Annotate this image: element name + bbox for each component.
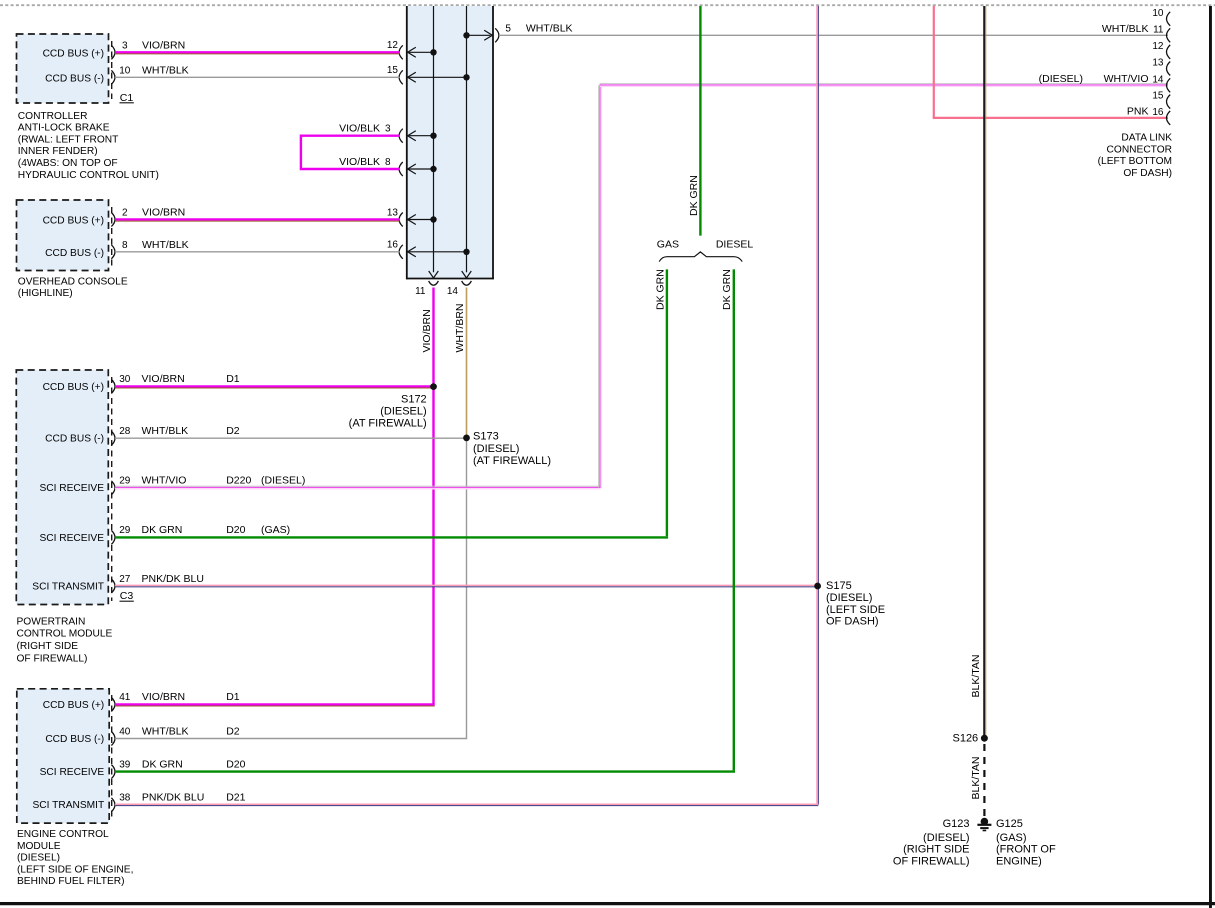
svg-text:(DIESEL): (DIESEL) — [261, 475, 305, 487]
wire VIO/BRN controller ALB pin 3 to block pin 12 — [115, 52, 400, 54]
svg-text:40: 40 — [119, 726, 131, 737]
pin 27 number — [119, 574, 131, 585]
svg-text:(LEFT SIDE: (LEFT SIDE — [826, 604, 885, 616]
svg-text:DIESEL: DIESEL — [716, 238, 754, 250]
bus wire 1 (CCD+) inside block — [429, 6, 439, 278]
svg-text:(AT FIREWALL): (AT FIREWALL) — [473, 455, 551, 467]
data link connector pin 13 bracket — [1167, 62, 1171, 76]
PNK/DK BLU wire label (pin 38) — [142, 792, 204, 804]
PCM CCD BUS (-) label — [45, 434, 104, 445]
svg-text:C3: C3 — [120, 590, 134, 602]
block pin 13 internal wire with arrow and junction — [408, 215, 437, 225]
svg-text:SCI RECEIVE: SCI RECEIVE — [40, 767, 105, 778]
svg-text:S173: S173 — [473, 431, 499, 443]
PCM pin bracket at SCI TRANSMIT — [111, 579, 115, 593]
pin 41 number — [119, 692, 131, 703]
GAS label — [657, 238, 679, 250]
block pin 5 internal wire with arrow and junction — [463, 30, 492, 40]
PCM SCI TRANSMIT label — [32, 581, 104, 592]
PCM CCD BUS (+) label — [43, 382, 104, 393]
controller ALB pin 3 bracket — [111, 45, 115, 59]
wire VIO/BLK jumper loop between block pins 3 and 8 — [301, 136, 400, 169]
block pin 8 number label — [385, 157, 391, 168]
pin 3 number — [122, 40, 128, 51]
svg-text:INNER FENDER): INNER FENDER) — [18, 146, 98, 157]
wire VIO/BRN vertical from block pin 11 — [432, 288, 434, 705]
WHT/BLK wire label (pin 40) — [142, 725, 189, 737]
PCM pin bracket at CCD BUS (+) — [111, 379, 115, 393]
CCD BUS (+) label (controller ALB) — [43, 48, 104, 59]
svg-text:27: 27 — [119, 574, 131, 585]
WHT/BLK wire label (pin 8) — [142, 239, 189, 251]
ECM CCD BUS (+) label — [43, 700, 104, 711]
wire WHT/BLK controller ALB pin 10 to block pin 15 — [115, 76, 400, 78]
data link connector pin 11 bracket — [1167, 28, 1171, 42]
svg-text:(DIESEL): (DIESEL) — [473, 443, 519, 455]
block pin 3 internal wire with arrow and junction — [408, 131, 437, 141]
svg-text:(DIESEL): (DIESEL) — [923, 832, 969, 844]
svg-text:CCD BUS (+): CCD BUS (+) — [43, 48, 104, 59]
svg-text:VIO/BRN: VIO/BRN — [142, 207, 185, 219]
svg-text:OVERHEAD CONSOLE: OVERHEAD CONSOLE — [18, 276, 128, 287]
data link connector pin 13 number — [1152, 58, 1164, 69]
svg-text:(DIESEL): (DIESEL) — [380, 405, 426, 417]
ground G123 label — [943, 818, 970, 830]
svg-text:ENGINE): ENGINE) — [996, 855, 1042, 867]
controller anti-lock brake module box C1 — [17, 34, 112, 103]
svg-text:OF DASH): OF DASH) — [1123, 168, 1172, 179]
CCD BUS (-) label (overhead console) — [45, 248, 104, 259]
data link connector pin 15 number — [1152, 91, 1164, 102]
block pin 16 internal wire with arrow and junction — [408, 247, 470, 257]
svg-text:VIO/BRN: VIO/BRN — [142, 691, 185, 703]
WHT/BLK wire label (pin 28) — [142, 425, 189, 437]
svg-text:(HIGHLINE): (HIGHLINE) — [18, 288, 73, 299]
wire PNK from top of page to data link connector pin 16 — [933, 6, 1168, 118]
(GAS) annotation (D20) — [261, 524, 290, 536]
block pin 8 internal wire with arrow and junction — [408, 164, 437, 174]
svg-text:VIO/BRN: VIO/BRN — [421, 309, 433, 352]
WHT/VIO wire label (DLC pin 14) — [1104, 73, 1149, 85]
svg-text:(AT FIREWALL): (AT FIREWALL) — [349, 417, 427, 429]
pin 30 number — [119, 374, 131, 385]
PCM caption — [17, 616, 113, 664]
DK GRN label (DIESEL branch) — [721, 269, 733, 310]
svg-text:10: 10 — [1152, 8, 1164, 19]
ECM SCI TRANSMIT label — [32, 800, 104, 811]
pin 8 number — [122, 240, 128, 251]
page bottom solid border — [0, 902, 1215, 905]
svg-text:12: 12 — [387, 40, 399, 51]
svg-text:DK GRN: DK GRN — [654, 269, 666, 310]
PCM pin bracket at CCD BUS (-) — [111, 431, 115, 445]
svg-text:WHT/BLK: WHT/BLK — [142, 725, 189, 737]
block pin 5 number label — [505, 24, 511, 35]
data link connector pin 12 bracket — [1167, 45, 1171, 59]
svg-text:WHT/BLK: WHT/BLK — [142, 425, 189, 437]
page right solid border — [1209, 6, 1212, 908]
block pin 3 connector bracket — [399, 129, 403, 143]
svg-text:D20: D20 — [226, 758, 245, 770]
svg-text:13: 13 — [387, 207, 399, 218]
svg-text:(DIESEL): (DIESEL) — [17, 853, 60, 864]
wire DK GRN PCM pin 29 to GAS branch — [115, 269, 668, 537]
svg-text:D1: D1 — [226, 373, 240, 385]
svg-text:ANTI-LOCK BRAKE: ANTI-LOCK BRAKE — [18, 123, 110, 134]
svg-text:DK GRN: DK GRN — [142, 524, 183, 536]
svg-text:WHT/BLK: WHT/BLK — [1102, 23, 1149, 35]
svg-text:16: 16 — [387, 240, 399, 251]
VIO/BRN wire label (pin 2) — [142, 207, 185, 219]
svg-text:15: 15 — [387, 65, 399, 76]
svg-text:(RIGHT SIDE: (RIGHT SIDE — [17, 641, 79, 652]
svg-text:S126: S126 — [952, 732, 978, 744]
overhead console pin 2 bracket — [111, 213, 115, 227]
block pin 15 internal wire with arrow and junction — [408, 72, 470, 82]
CCD BUS (+) label (overhead console) — [43, 216, 104, 227]
svg-text:OF DASH): OF DASH) — [826, 616, 879, 628]
svg-text:8: 8 — [122, 240, 128, 251]
svg-text:WHT/BLK: WHT/BLK — [526, 23, 573, 35]
svg-text:S172: S172 — [401, 394, 427, 406]
svg-text:39: 39 — [119, 759, 131, 770]
data link connector pin 12 number — [1152, 41, 1164, 52]
svg-text:3: 3 — [122, 40, 128, 51]
splice S175 — [814, 583, 821, 590]
WHT/BLK wire label (pin 10) — [142, 64, 189, 76]
svg-text:BEHIND FUEL FILTER): BEHIND FUEL FILTER) — [17, 876, 125, 887]
DK GRN wire label (pin 39) — [142, 758, 183, 770]
PCM SCI RECEIVE label — [39, 533, 104, 544]
powertrain control module box C3 — [16, 370, 111, 605]
block pin 15 number label — [387, 65, 399, 76]
svg-text:CONNECTOR: CONNECTOR — [1107, 144, 1172, 155]
svg-text:OF FIREWALL): OF FIREWALL) — [893, 855, 970, 867]
wire WHT/VIO PCM pin 29 to data link connector pin 14 — [115, 84, 1168, 489]
svg-text:VIO/BRN: VIO/BRN — [142, 373, 185, 385]
data link connector pin 10 number — [1152, 8, 1164, 19]
ECM pin bracket at SCI RECEIVE — [111, 765, 115, 779]
svg-text:(FRONT OF: (FRONT OF — [996, 844, 1056, 856]
overhead console module box — [17, 200, 112, 271]
svg-text:VIO/BLK: VIO/BLK — [339, 156, 380, 168]
block pin 3 number label — [385, 124, 391, 135]
wire BLK/TAN from top of page to splice S126 — [984, 6, 986, 738]
svg-text:(GAS): (GAS) — [261, 524, 290, 536]
connector block body (bulkhead connector) — [406, 6, 494, 279]
wire VIO/BRN overhead console pin 2 to block pin 13 — [115, 220, 400, 222]
connector C3 label — [120, 590, 134, 602]
svg-text:CCD BUS (+): CCD BUS (+) — [43, 216, 104, 227]
data link connector caption — [1098, 133, 1173, 179]
data link connector body bar — [1209, 6, 1212, 908]
pin 14 bottom exit of block — [447, 281, 472, 297]
svg-text:41: 41 — [119, 692, 131, 703]
pin 29 number (DK GRN) — [119, 525, 131, 536]
svg-text:28: 28 — [119, 426, 131, 437]
svg-text:CCD BUS (-): CCD BUS (-) — [45, 734, 104, 745]
controller ALB caption — [18, 111, 159, 181]
svg-text:SCI RECEIVE: SCI RECEIVE — [39, 533, 104, 544]
svg-text:DK GRN: DK GRN — [142, 758, 183, 770]
block pin 13 number label — [387, 207, 399, 218]
VIO/BRN wire label (pin 41) — [142, 691, 185, 703]
svg-text:ENGINE CONTROL: ENGINE CONTROL — [17, 829, 109, 840]
pin 29 number (WHT/VIO) — [119, 476, 131, 487]
svg-text:C1: C1 — [120, 92, 134, 104]
VIO/BRN wire label (pin 30) — [142, 373, 185, 385]
svg-text:G125: G125 — [996, 818, 1023, 830]
data link connector pin 16 bracket — [1167, 111, 1171, 125]
svg-text:11: 11 — [1153, 24, 1164, 35]
svg-text:GAS: GAS — [657, 238, 679, 250]
svg-text:CCD BUS (-): CCD BUS (-) — [45, 73, 104, 84]
block pin 13 connector bracket — [399, 213, 403, 227]
pin 10 number — [119, 65, 131, 76]
svg-text:POWERTRAIN: POWERTRAIN — [17, 616, 86, 627]
svg-text:13: 13 — [1152, 58, 1164, 69]
wire VIO/BRN PCM pin 30 to splice S172 — [115, 386, 432, 388]
ECM pin bracket at SCI TRANSMIT — [111, 798, 115, 812]
splice S175 caption — [826, 580, 885, 627]
wire DK GRN from top of page — [699, 6, 701, 236]
pin 28 number — [119, 426, 131, 437]
circuit D1 label (PCM) — [226, 373, 240, 385]
svg-text:D2: D2 — [226, 725, 240, 737]
connector C1 label — [120, 92, 134, 104]
svg-text:D2: D2 — [226, 425, 240, 437]
splice S172 caption — [349, 394, 427, 430]
overhead console pin 8 bracket — [111, 245, 115, 259]
block pin 5 connector bracket — [495, 28, 499, 42]
svg-text:SCI RECEIVE: SCI RECEIVE — [39, 483, 104, 494]
data link connector pin 11 number — [1153, 24, 1164, 35]
svg-text:MODULE: MODULE — [17, 841, 61, 852]
svg-text:CCD BUS (-): CCD BUS (-) — [45, 434, 104, 445]
VIO/BLK wire label (pin 8) — [339, 156, 380, 168]
svg-text:(RWAL: LEFT FRONT: (RWAL: LEFT FRONT — [18, 134, 119, 145]
svg-text:BLK/TAN: BLK/TAN — [970, 655, 982, 698]
PNK/DK BLU wire label (pin 27) — [142, 573, 204, 585]
WHT/BLK wire label (pin 5) — [526, 23, 573, 35]
svg-text:WHT/BLK: WHT/BLK — [142, 64, 189, 76]
PCM SCI RECEIVE label — [39, 483, 104, 494]
block pin 8 connector bracket — [399, 162, 403, 176]
svg-text:(LEFT BOTTOM: (LEFT BOTTOM — [1098, 156, 1172, 167]
pin 40 number — [119, 726, 131, 737]
svg-text:(GAS): (GAS) — [996, 832, 1027, 844]
svg-text:VIO/BLK: VIO/BLK — [339, 123, 380, 135]
VIO/BRN wire label (pin 3) — [142, 39, 185, 51]
splice S173 caption — [473, 431, 551, 468]
pin 38 number — [119, 793, 131, 804]
svg-text:DK GRN: DK GRN — [688, 175, 700, 216]
PNK wire label (DLC pin 16) — [1127, 105, 1149, 117]
pin 39 number — [119, 759, 131, 770]
block pin 12 number label — [387, 40, 399, 51]
svg-text:PNK/DK BLU: PNK/DK BLU — [142, 573, 204, 585]
svg-text:WHT/VIO: WHT/VIO — [1104, 73, 1149, 85]
splice S126 — [981, 735, 988, 742]
BLK/TAN vertical wire label (upper) — [970, 655, 982, 698]
svg-text:2: 2 — [122, 208, 128, 219]
ground G125 label — [996, 818, 1023, 830]
svg-text:15: 15 — [1152, 91, 1164, 102]
splice S173 — [463, 435, 470, 442]
svg-text:5: 5 — [505, 24, 511, 35]
svg-text:3: 3 — [385, 124, 391, 135]
wire PNK/DK BLU ECM pin 38 to splice S175 vertical — [115, 804, 818, 805]
data link connector pin 16 number — [1152, 107, 1164, 118]
svg-text:14: 14 — [1152, 74, 1164, 85]
CCD BUS (-) label (controller ALB) — [45, 73, 104, 84]
svg-text:PNK/DK BLU: PNK/DK BLU — [142, 792, 204, 804]
circuit D21 label (ECM) — [226, 792, 245, 804]
svg-text:PNK: PNK — [1127, 105, 1149, 117]
pin 11 bottom exit of block — [415, 281, 438, 297]
VIO/BLK wire label (pin 3) — [339, 123, 380, 135]
wire WHT/BLK ECM pin 40 to vertical — [115, 738, 467, 740]
DK GRN wire label (pin 29) — [142, 524, 183, 536]
ground symbol G123 / G125 — [977, 818, 991, 831]
engine control module box — [17, 689, 112, 823]
svg-text:16: 16 — [1152, 107, 1164, 118]
svg-text:8: 8 — [385, 157, 391, 168]
WHT/BLK wire label (DLC pin 11) — [1102, 23, 1149, 35]
ECM pin bracket at CCD BUS (-) — [111, 732, 115, 746]
splice S172 — [430, 383, 437, 390]
svg-text:SCI TRANSMIT: SCI TRANSMIT — [32, 800, 104, 811]
PCM pin bracket at SCI RECEIVE — [111, 530, 115, 544]
svg-text:S175: S175 — [826, 580, 852, 592]
wire VIO/BRN ECM pin 41 to vertical bus — [115, 704, 435, 706]
BLK/TAN vertical wire label (lower) — [970, 757, 982, 800]
svg-text:G123: G123 — [943, 818, 970, 830]
svg-text:SCI TRANSMIT: SCI TRANSMIT — [32, 581, 104, 592]
svg-text:CCD BUS (+): CCD BUS (+) — [43, 700, 104, 711]
svg-text:D21: D21 — [226, 792, 245, 804]
data link connector pin 14 bracket — [1167, 78, 1171, 92]
svg-text:CCD BUS (-): CCD BUS (-) — [45, 248, 104, 259]
svg-text:10: 10 — [119, 65, 131, 76]
svg-text:(DIESEL): (DIESEL) — [1039, 73, 1083, 85]
svg-text:DK GRN: DK GRN — [721, 269, 733, 310]
svg-text:12: 12 — [1152, 41, 1164, 52]
ground G123 caption — [893, 832, 970, 868]
(DIESEL) annotation (D220) — [261, 475, 305, 487]
data link connector pin 15 bracket — [1167, 95, 1171, 109]
circuit D20 label (PCM) — [226, 524, 245, 536]
svg-text:D20: D20 — [226, 524, 245, 536]
svg-text:D220: D220 — [226, 475, 251, 487]
block pin 15 connector bracket — [399, 70, 403, 84]
splice S126 label — [952, 732, 978, 744]
svg-text:CONTROL MODULE: CONTROL MODULE — [17, 629, 113, 640]
bus wire 2 (CCD-) inside block — [462, 6, 472, 278]
wire WHT/BRN vertical from block pin 14 — [466, 288, 468, 438]
wire WHT/BLK vertical from splice S173 to ECM pin 40 — [466, 438, 468, 739]
svg-text:(RIGHT SIDE: (RIGHT SIDE — [903, 844, 969, 856]
svg-text:VIO/BRN: VIO/BRN — [142, 39, 185, 51]
wire PNK/DK BLU PCM pin 27 to splice S175 — [115, 585, 818, 586]
PCM pin bracket at SCI RECEIVE — [111, 481, 115, 495]
svg-text:14: 14 — [447, 286, 459, 297]
svg-text:OF FIREWALL): OF FIREWALL) — [17, 654, 88, 665]
(DIESEL) annotation (DLC pin 14) — [1039, 73, 1083, 85]
circuit D220 label — [226, 475, 251, 487]
svg-text:BLK/TAN: BLK/TAN — [970, 757, 982, 800]
block pin 12 internal wire with arrow and junction — [408, 47, 437, 57]
svg-text:(4WABS: ON TOP OF: (4WABS: ON TOP OF — [18, 158, 118, 169]
ECM caption — [17, 829, 133, 887]
brace splitting GAS / DIESEL — [659, 252, 742, 262]
wire WHT/BLK overhead console pin 8 to block pin 16 — [115, 251, 400, 253]
wire WHT/BLK PCM pin 28 to splice S173 — [115, 437, 465, 439]
DK GRN label (GAS branch) — [654, 269, 666, 310]
wire PNK/DK BLU vertical through splice S175 — [817, 6, 818, 805]
block pin 16 number label — [387, 240, 399, 251]
svg-text:29: 29 — [119, 476, 131, 487]
WHT/VIO wire label (pin 29) — [142, 475, 187, 487]
wire BLK/TAN dashed to ground — [983, 744, 985, 817]
VIO/BRN vertical wire label — [421, 309, 433, 352]
WHT/BRN vertical wire label — [454, 304, 466, 353]
ground G125 caption — [996, 832, 1056, 868]
pin 2 number — [122, 208, 128, 219]
svg-text:(DIESEL): (DIESEL) — [826, 592, 872, 604]
svg-text:WHT/VIO: WHT/VIO — [142, 475, 187, 487]
block pin 16 connector bracket — [399, 245, 403, 259]
wire WHT/BLK block pin 5 to data link connector pin 11 — [499, 34, 1168, 36]
data link connector pin 10 bracket — [1167, 12, 1171, 26]
ECM pin bracket at CCD BUS (+) — [111, 697, 115, 711]
DK GRN label (top) — [688, 175, 700, 216]
block pin 12 connector bracket — [399, 45, 403, 59]
ECM CCD BUS (-) label — [45, 734, 104, 745]
circuit D2 label (PCM) — [226, 425, 240, 437]
svg-text:DATA LINK: DATA LINK — [1121, 133, 1172, 144]
circuit D2 label (ECM) — [226, 725, 240, 737]
svg-text:CONTROLLER: CONTROLLER — [18, 111, 88, 122]
svg-text:38: 38 — [119, 793, 131, 804]
svg-text:11: 11 — [415, 286, 426, 297]
DIESEL label — [716, 238, 754, 250]
svg-text:WHT/BLK: WHT/BLK — [142, 239, 189, 251]
svg-text:D1: D1 — [226, 691, 240, 703]
svg-text:WHT/BRN: WHT/BRN — [454, 304, 466, 353]
svg-text:CCD BUS (+): CCD BUS (+) — [43, 382, 104, 393]
svg-text:(LEFT SIDE OF ENGINE,: (LEFT SIDE OF ENGINE, — [17, 864, 133, 875]
svg-text:HYDRAULIC CONTROL UNIT): HYDRAULIC CONTROL UNIT) — [18, 170, 159, 181]
ECM SCI RECEIVE label — [40, 767, 105, 778]
controller ALB pin 10 bracket — [111, 70, 115, 84]
data link connector pin 14 number — [1152, 74, 1164, 85]
svg-text:30: 30 — [119, 374, 131, 385]
svg-text:29: 29 — [119, 525, 131, 536]
overhead console caption — [18, 276, 128, 299]
page top dashed border — [0, 4, 1215, 6]
circuit D1 label (ECM) — [226, 691, 240, 703]
circuit D20 label (ECM) — [226, 758, 245, 770]
wire DK GRN DIESEL branch to ECM pin 39 — [115, 269, 735, 771]
